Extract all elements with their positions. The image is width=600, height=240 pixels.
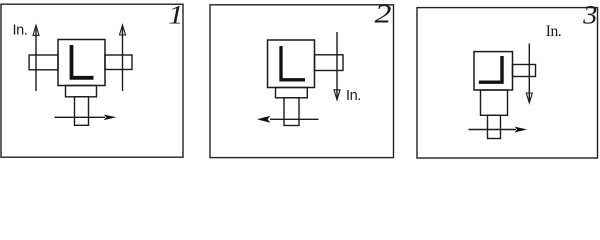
panel 3 frame [417, 8, 598, 158]
right input shaft P2 [315, 55, 344, 71]
right input shaft P3 [513, 65, 536, 77]
arrow up right P1 [122, 27, 124, 91]
gearbox housing P1 [58, 40, 105, 86]
panel 2 frame [210, 5, 394, 158]
svg-text:In.: In. [546, 23, 561, 40]
svg-text:1: 1 [168, 1, 183, 30]
svg-text:2: 2 [375, 0, 392, 28]
output arrow right P3 [469, 129, 517, 131]
bottom shaft flange P2 [276, 88, 308, 98]
output arrow right P1 [55, 116, 106, 118]
output arrow left P2 [270, 118, 319, 120]
svg-text:3: 3 [582, 0, 597, 29]
input arrow up left P1 [35, 27, 37, 91]
svg-text:In.: In. [13, 23, 28, 39]
bottom shaft flange P3 [481, 90, 508, 115]
bottom output shaft P3 [488, 115, 501, 138]
J mark inside housing P3 [479, 56, 502, 82]
gearbox housing P2 [268, 40, 315, 88]
gearbox housing P3 [474, 52, 513, 90]
input arrow down P3 [528, 44, 530, 101]
left input shaft P1 [29, 55, 58, 70]
bottom shaft flange P1 [66, 86, 97, 97]
L mark inside housing P1 [72, 45, 94, 78]
bottom output shaft P1 [75, 97, 89, 126]
svg-text:In.: In. [346, 88, 361, 104]
L mark inside housing P2 [281, 46, 305, 80]
bottom output shaft P2 [284, 98, 299, 126]
input arrow down P2 [336, 32, 338, 98]
right shaft P1 [105, 55, 132, 70]
panel 1 frame [1, 4, 183, 157]
